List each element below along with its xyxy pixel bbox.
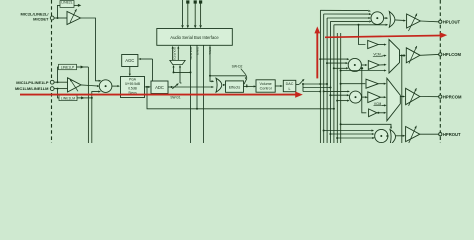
wire PGA to ADC	[145, 86, 149, 88]
amp HPLCOM input A	[368, 40, 379, 48]
wire amp A to mux	[378, 44, 384, 46]
amp MIC2L input buffer	[67, 12, 81, 25]
Effects block	[226, 81, 244, 92]
amp HPRCOM input D	[368, 92, 381, 103]
AGC block	[122, 55, 138, 67]
wire amp to HPLOUT pin	[420, 20, 438, 23]
svg-text:HPROUT: HPROUT	[443, 132, 461, 137]
switch SW-D2	[244, 78, 247, 84]
svg-text:0.5dB: 0.5dB	[128, 87, 137, 91]
wire bus tap to mux bottom	[341, 70, 384, 72]
wire VCM buffer feed	[362, 68, 367, 113]
wire Effects to Volume Control	[244, 85, 254, 87]
svg-text:HPRCOM: HPRCOM	[443, 94, 462, 99]
svg-text:DOUT/D1: DOUT/D1	[172, 47, 176, 60]
amp HPRCOM driver	[406, 88, 420, 104]
wire MIC2L amp output to ADC mixer	[81, 18, 100, 81]
wire crossover down to HPROUT mux	[401, 56, 403, 144]
switch DAC output	[296, 84, 299, 86]
svg-text:0/+59.5dB: 0/+59.5dB	[125, 82, 141, 86]
node LINE1LM (boxed label)	[59, 95, 77, 100]
wire amp D to mux	[381, 96, 385, 98]
mux HPLOUT	[389, 12, 395, 28]
terminal HPLOUT	[439, 20, 442, 23]
wire DAC mux to Effects	[223, 84, 224, 86]
wire amp to HPROUT pin	[420, 133, 439, 135]
node LINE2L (boxed label)	[60, 1, 74, 8]
wire DOUT mux to serial interface (1)	[172, 48, 174, 61]
wire LINE1LM to output stage	[77, 97, 92, 99]
wire ADC to DAC mux	[172, 86, 212, 88]
amp HPLCOM input B	[368, 61, 379, 70]
wire mux to HPLOUT amp	[395, 19, 404, 22]
wire bus tap to VCM buffer A	[359, 25, 366, 45]
Volume Control block	[256, 80, 275, 92]
wire DIN left line down	[190, 45, 192, 143]
mixer left-ADC input sum	[99, 80, 112, 93]
bus analog routing verticals	[319, 10, 321, 143]
svg-text:DIN/R: DIN/R	[196, 47, 200, 56]
svg-text:AGC: AGC	[125, 58, 134, 63]
svg-text:PGA: PGA	[129, 78, 137, 82]
chip boundary (left dashed line)	[51, 0, 53, 143]
chip boundary (right dashed line)	[439, 0, 441, 143]
mixer HPLOUT sum	[371, 12, 384, 25]
Audio Serial Bus Interface block	[157, 29, 233, 46]
wire mux to HPROUT amp	[396, 135, 404, 137]
wire mux to HPLCOM amp	[400, 55, 404, 57]
wire LINE1LP bypass down	[87, 67, 89, 143]
svg-text:HPLOUT: HPLOUT	[443, 20, 461, 25]
terminal HPROUT	[439, 133, 442, 136]
amp HPRCOM input E	[369, 109, 377, 117]
mux HPROUT	[390, 130, 396, 146]
DAC L block	[283, 80, 296, 91]
wire bus taps to HPLCOM mixer	[320, 58, 347, 60]
mux DOUT source select (trapezoid)	[170, 60, 185, 64]
svg-text:SW-D2: SW-D2	[232, 64, 243, 68]
svg-text:Audio Serial Bus Interface: Audio Serial Bus Interface	[170, 35, 219, 40]
wire VCM to mux	[382, 104, 385, 106]
mixer HPROUT sum	[375, 129, 388, 142]
pin BCLK	[194, 3, 196, 25]
wire HPLCOM mixer to amp B	[361, 64, 365, 66]
pin DIN	[200, 3, 202, 25]
mux HPRCOM	[387, 78, 400, 121]
terminal HPRCOM	[439, 95, 442, 98]
red annotation: playback path arrow	[325, 36, 440, 38]
wire ADC feedback to AGC	[141, 58, 153, 60]
svg-text:Volume: Volume	[259, 82, 271, 86]
switch SW-D1	[172, 84, 177, 89]
svg-text:L: L	[288, 87, 290, 91]
wire amp to HPLCOM pin	[420, 53, 439, 56]
amp HPRCOM input C	[366, 79, 378, 88]
wire LINE1LM to ADC mixer	[92, 92, 99, 98]
terminal MIC1LP	[50, 80, 54, 84]
wire second DOUT feed	[173, 66, 175, 72]
wire bus tap to amp C	[341, 83, 366, 85]
wire amp to HPRCOM pin	[420, 96, 439, 98]
svg-text:LINE2L: LINE2L	[61, 1, 72, 5]
svg-text:Effects: Effects	[229, 85, 241, 89]
wire DIN mid line down	[196, 45, 198, 109]
wire bus tap to HPROUT mux top	[341, 124, 391, 127]
wire MIC1LP to amp	[54, 81, 67, 83]
wire LINE1LP label to input node	[58, 67, 59, 82]
wire LINE2L to output stage	[74, 4, 78, 6]
svg-text:MIC1LM/LINE1LM: MIC1LM/LINE1LM	[15, 86, 49, 91]
red annotation: bypass-up arrow	[316, 32, 318, 78]
svg-text:DOUT/T1: DOUT/T1	[189, 47, 193, 60]
wire mixer to PGA	[112, 85, 118, 87]
node LINE1LP (boxed label)	[59, 64, 77, 69]
wire HPROUT mixer to mux	[387, 135, 388, 137]
svg-text:Control: Control	[260, 87, 272, 91]
wire MIC2L to amp	[54, 17, 67, 19]
wire LINE2L label to input node	[58, 5, 61, 18]
wire LINE1LM bypass down	[91, 98, 93, 143]
terminal MIC1LM	[50, 87, 54, 91]
wire MIC1LM node to LINE1LM label	[58, 89, 60, 98]
svg-text:DAC: DAC	[286, 82, 294, 86]
mux HPLCOM	[389, 40, 400, 74]
wire SW-D1 to DOUT mux	[179, 67, 181, 84]
pin WCLK	[187, 3, 189, 25]
wire ADC output	[168, 86, 172, 88]
wire LINE1LP to output stage	[77, 66, 89, 68]
mixer HPRCOM sum	[350, 91, 362, 103]
svg-text:MICDET: MICDET	[33, 16, 49, 21]
wire PGA bypass to output bus	[147, 87, 334, 109]
wire DOUT mux to serial interface (2)	[177, 48, 179, 61]
svg-text:ADC: ADC	[155, 85, 164, 90]
wire bus taps to HPROUT mixer	[324, 130, 372, 132]
bus top bends to HPL mixer	[320, 9, 368, 11]
wire MIC1LM to amp	[54, 88, 67, 90]
mixer HPLCOM sum	[348, 58, 361, 71]
wire Volume Control to DAC	[275, 85, 280, 87]
wire DIN to SW-D2 and DAC mux	[210, 45, 247, 76]
wire amp E to mux	[377, 112, 384, 114]
amp HPROUT driver	[406, 127, 420, 142]
svg-text:LINE1LP: LINE1LP	[61, 66, 75, 70]
pin SCLK	[182, 0, 184, 25]
wire DIN right line down	[203, 45, 205, 143]
wire amp B to mux	[379, 64, 384, 66]
wire DAC output fanout	[303, 83, 328, 85]
wire mixer to HPLOUT mux	[384, 17, 386, 19]
mux DAC source select	[216, 78, 222, 92]
svg-text:SW-D1: SW-D1	[170, 96, 180, 100]
amp HPLCOM driver	[406, 48, 420, 63]
red annotation: record path arrow	[20, 94, 296, 96]
amp HPLOUT driver	[407, 14, 421, 28]
terminal HPLCOM	[439, 53, 442, 56]
PGA left-record gain block	[121, 77, 145, 98]
wire bus taps to HPRCOM mixer	[324, 90, 348, 92]
wire amp output to ADC mixer	[81, 84, 90, 87]
svg-text:LINE1LM: LINE1LM	[61, 97, 75, 101]
svg-text:MIC1LP/LINE1LP: MIC1LP/LINE1LP	[16, 80, 49, 85]
svg-text:HPLCOM: HPLCOM	[443, 52, 462, 57]
wire VCM to mux	[381, 55, 384, 58]
wire AGC to PGA	[129, 67, 131, 74]
ADC block	[151, 81, 168, 94]
amp MIC1L differential buffer	[68, 78, 82, 92]
wire mux to HPRCOM amp	[400, 96, 403, 98]
wire amp C to mux	[378, 83, 384, 85]
wire HPRCOM mixer to amp D	[362, 96, 366, 98]
terminal MIC2L	[50, 16, 54, 20]
